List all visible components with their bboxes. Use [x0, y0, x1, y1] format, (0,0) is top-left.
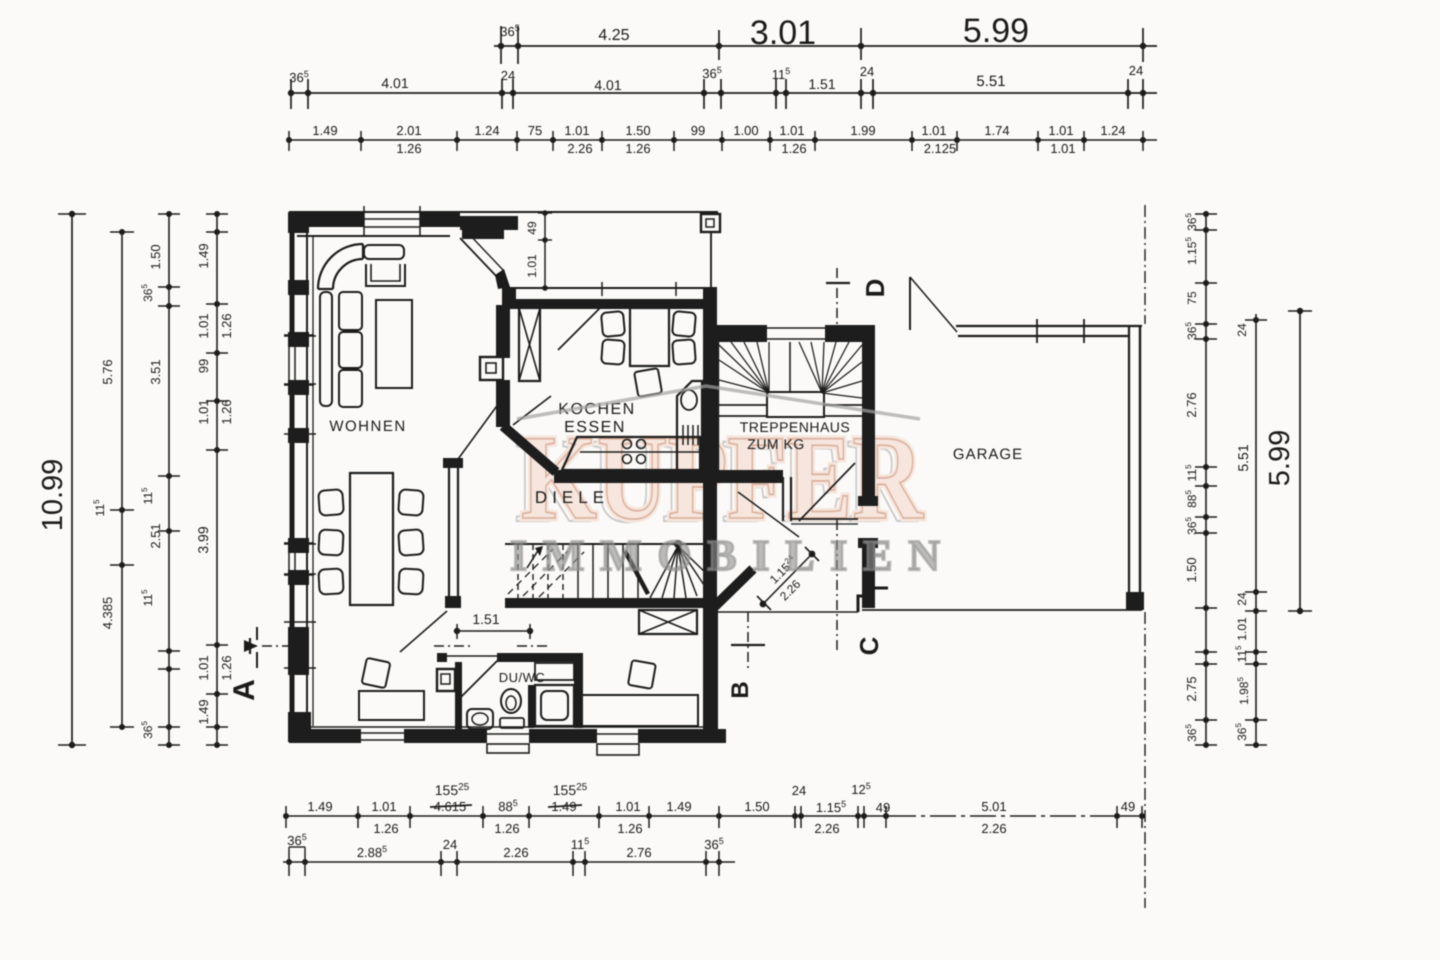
toilet [501, 689, 521, 713]
svg-text:2.76: 2.76 [1184, 392, 1199, 417]
svg-text:75: 75 [528, 123, 542, 138]
svg-text:115: 115 [571, 836, 590, 852]
sink [681, 390, 697, 410]
left wall outer line [290, 211, 295, 742]
svg-text:365: 365 [1234, 723, 1249, 741]
svg-text:115: 115 [140, 487, 155, 504]
kitchen-diele door leaf [513, 396, 551, 425]
property dash-dot line right [1144, 205, 1146, 324]
treppenhaus fan right [799, 342, 822, 393]
svg-text:TREPPENHAUS: TREPPENHAUS [740, 419, 851, 435]
svg-text:2.26: 2.26 [503, 845, 528, 860]
stair handrail bold [625, 551, 648, 594]
entry door swing treppenhaus [799, 463, 855, 521]
garage bottom opening line [862, 609, 1142, 611]
svg-text:4.25: 4.25 [598, 27, 629, 44]
svg-text:1.01: 1.01 [615, 799, 640, 814]
svg-text:1.01: 1.01 [196, 399, 211, 424]
svg-text:1.26: 1.26 [625, 141, 650, 156]
svg-text:115: 115 [772, 66, 791, 82]
svg-text:10.99: 10.99 [37, 459, 69, 532]
kitchen chairs [601, 311, 625, 337]
svg-text:49: 49 [1121, 799, 1135, 814]
tilted chair [628, 660, 656, 689]
top dimension row 3 [289, 139, 1157, 141]
svg-text:49: 49 [525, 221, 539, 235]
svg-text:24: 24 [860, 64, 874, 79]
vent shaft X box [639, 610, 697, 634]
stair bottom wall band [505, 598, 718, 608]
bottom wall band [289, 729, 361, 743]
stair dashed diagonals [508, 549, 553, 594]
left dimension column 4 [216, 214, 218, 745]
svg-text:2.26: 2.26 [981, 821, 1006, 836]
svg-text:DU/WC: DU/WC [499, 670, 546, 685]
right dimension column 1 [1205, 211, 1207, 746]
kitchen bottom wall band [554, 470, 783, 483]
svg-text:1.51: 1.51 [472, 611, 499, 627]
svg-text:C: C [854, 636, 884, 655]
right wall lower segment [703, 482, 717, 600]
top wall band living room [289, 211, 718, 213]
svg-text:24: 24 [501, 68, 515, 83]
svg-text:1.50: 1.50 [148, 244, 163, 269]
svg-text:A: A [228, 679, 261, 701]
svg-text:1.26: 1.26 [494, 821, 519, 836]
svg-text:365: 365 [1184, 213, 1199, 231]
svg-text:1.00: 1.00 [733, 123, 758, 138]
svg-text:5.51: 5.51 [976, 73, 1005, 90]
svg-text:ESSEN: ESSEN [564, 419, 626, 436]
bottom dimension row 2 [283, 861, 735, 863]
svg-text:1.49: 1.49 [196, 243, 211, 268]
garage right wall [1128, 326, 1130, 598]
kitchen right tall unit [677, 381, 702, 478]
svg-text:365: 365 [140, 284, 155, 302]
svg-text:365: 365 [287, 832, 306, 848]
svg-text:2.51: 2.51 [148, 523, 163, 548]
svg-text:24: 24 [1235, 323, 1249, 337]
svg-text:115: 115 [92, 499, 107, 516]
svg-text:1.155: 1.155 [1184, 237, 1199, 265]
dim 1.51 wc door [457, 630, 530, 632]
sofa seats [339, 292, 362, 330]
svg-text:365: 365 [702, 65, 721, 81]
treppenhaus fan left [719, 345, 769, 393]
svg-text:1.01: 1.01 [525, 254, 539, 278]
watermark roofline [517, 386, 920, 419]
svg-text:ZUM KG: ZUM KG [747, 436, 804, 452]
garage top wall [956, 325, 1142, 327]
svg-text:1.01: 1.01 [196, 655, 211, 680]
svg-text:2.75: 2.75 [1184, 676, 1199, 701]
garage bottom-left jamb [858, 588, 888, 612]
washbasin [467, 709, 493, 729]
wc door leaf [458, 659, 499, 700]
dining chairs [318, 489, 344, 516]
svg-text:1.24: 1.24 [1100, 123, 1125, 138]
svg-text:1.26: 1.26 [373, 821, 398, 836]
svg-text:2.01: 2.01 [396, 123, 421, 138]
svg-text:115: 115 [140, 589, 155, 606]
armchair top [366, 264, 405, 286]
sofa back cushion left [320, 292, 332, 406]
svg-text:1.26: 1.26 [617, 821, 642, 836]
kitchen top wall band [502, 287, 717, 289]
svg-text:1.50: 1.50 [744, 799, 769, 814]
svg-text:365: 365 [1184, 724, 1199, 742]
shower wall right [574, 662, 583, 728]
svg-text:99: 99 [691, 123, 705, 138]
hob circles [623, 440, 632, 449]
svg-text:1.26: 1.26 [396, 141, 421, 156]
left wall piers [288, 212, 309, 233]
wc-shower separator [528, 685, 534, 728]
treppenhaus side treads [719, 404, 767, 406]
bench/wardrobe bottom [579, 695, 698, 726]
svg-text:1.01: 1.01 [1048, 123, 1073, 138]
top wall diagonal wedge to kitchen [460, 216, 518, 230]
svg-text:1.985: 1.985 [1236, 677, 1251, 705]
interior stair treads solid [577, 544, 579, 598]
section line A left [262, 645, 302, 647]
svg-text:15525: 15525 [435, 782, 470, 798]
chimney box top right [701, 214, 720, 232]
svg-text:2.885: 2.885 [357, 844, 387, 860]
shower shelf [535, 663, 574, 680]
kitchen chair tilted below [634, 368, 662, 397]
left wall inner lines [306, 232, 308, 726]
svg-text:365: 365 [500, 23, 519, 39]
svg-text:2.26: 2.26 [814, 821, 839, 836]
svg-text:3.51: 3.51 [148, 359, 163, 384]
treppenhaus right wall band [862, 342, 875, 506]
wall opening tick marks [284, 334, 314, 336]
entry steps outside bottom wall [487, 744, 529, 753]
svg-text:49: 49 [876, 800, 890, 815]
svg-text:24: 24 [443, 837, 457, 852]
svg-text:1.24: 1.24 [474, 123, 499, 138]
right dimension column 2 [1255, 314, 1257, 745]
section marker C bottom [836, 520, 838, 650]
sofa corner arc [318, 244, 363, 289]
svg-text:1.51: 1.51 [808, 76, 835, 92]
svg-text:1.99: 1.99 [850, 123, 875, 138]
svg-text:D: D [860, 279, 890, 298]
svg-text:5.99: 5.99 [1264, 430, 1296, 486]
top dimension row 1 [494, 45, 1157, 47]
svg-text:1.50: 1.50 [625, 123, 650, 138]
svg-text:5.99: 5.99 [963, 12, 1029, 50]
top dimension row 2 [289, 92, 1157, 94]
svg-text:1.01: 1.01 [921, 123, 946, 138]
sofa top cushion [364, 245, 404, 259]
svg-text:125: 125 [851, 781, 870, 797]
svg-text:4.01: 4.01 [381, 75, 408, 91]
left dimension column 10.99 [71, 214, 73, 745]
svg-text:115: 115 [1234, 645, 1249, 662]
garage left wall [862, 336, 874, 500]
kitchen chamfer wall [503, 426, 556, 472]
svg-text:4.01: 4.01 [594, 77, 621, 93]
svg-text:5.01: 5.01 [981, 799, 1006, 814]
svg-text:DIELE: DIELE [535, 488, 609, 507]
dining table [350, 473, 393, 605]
entry hall jog wall [782, 477, 784, 521]
svg-text:1.49: 1.49 [312, 123, 337, 138]
stool tilted [362, 658, 391, 688]
svg-text:365: 365 [289, 69, 308, 85]
svg-text:1.49: 1.49 [307, 799, 332, 814]
sideboard bottom [359, 691, 424, 720]
section marker D top [836, 268, 838, 334]
svg-text:1.01: 1.01 [1050, 141, 1075, 156]
fridge vents [682, 425, 684, 445]
svg-text:24: 24 [792, 783, 806, 798]
svg-text:885: 885 [498, 798, 517, 814]
svg-text:365: 365 [1184, 517, 1199, 535]
treppenhaus left wall line [717, 342, 719, 470]
interior stair fan [650, 546, 678, 598]
entry ground line [718, 611, 858, 613]
coffee table [376, 300, 412, 388]
svg-text:2.26: 2.26 [567, 141, 592, 156]
shower tray [535, 685, 574, 726]
interior stair outline [505, 543, 712, 545]
kitchen table [630, 308, 669, 366]
svg-text:1.74: 1.74 [984, 123, 1009, 138]
svg-text:1.26: 1.26 [219, 399, 234, 424]
wc top wall [437, 653, 447, 662]
svg-text:3.01: 3.01 [750, 14, 816, 52]
garage entry door leaf [909, 277, 911, 330]
left wall crossbars [284, 335, 316, 337]
treppenhaus center line [789, 342, 791, 392]
svg-text:1.01: 1.01 [196, 313, 211, 338]
svg-text:5.51: 5.51 [1235, 444, 1251, 471]
svg-text:2.125: 2.125 [924, 141, 957, 156]
svg-text:1.01: 1.01 [779, 123, 804, 138]
kitchen counter bottom [562, 437, 700, 470]
svg-text:1.26: 1.26 [219, 655, 234, 680]
svg-text:B: B [727, 681, 754, 698]
wc left wall [455, 662, 462, 732]
svg-text:1.26: 1.26 [781, 141, 806, 156]
svg-text:IMMOBILIEN: IMMOBILIEN [510, 531, 940, 580]
section marker B [747, 612, 749, 668]
left dimension column 2 [121, 232, 123, 727]
svg-text:24: 24 [1129, 63, 1143, 78]
svg-text:99: 99 [196, 359, 211, 373]
svg-text:885: 885 [1184, 490, 1199, 508]
svg-text:1.49: 1.49 [666, 799, 691, 814]
svg-text:1.01: 1.01 [371, 799, 396, 814]
svg-text:1.01: 1.01 [564, 123, 589, 138]
svg-text:GARAGE: GARAGE [953, 446, 1023, 463]
stair up arrow [527, 549, 539, 568]
bottom dimension row 1 [286, 815, 890, 817]
svg-text:1.26: 1.26 [219, 313, 234, 338]
kitchen left wall [496, 305, 510, 358]
treppenhaus top wall [703, 325, 767, 342]
treppenhaus landing [767, 392, 824, 417]
svg-text:1.01: 1.01 [1235, 617, 1249, 641]
svg-text:5.76: 5.76 [100, 359, 115, 384]
diele top door swing [453, 403, 499, 466]
svg-text:365: 365 [140, 721, 155, 739]
vertical dim 1.01/49 at kitchen top [544, 213, 546, 288]
svg-text:4.385: 4.385 [100, 597, 115, 630]
left dimension column 3 [168, 214, 170, 745]
diagonal dim 1.15/2.26 entry [763, 554, 812, 604]
wc chimney [437, 669, 455, 691]
diagonal entry wall [712, 569, 753, 609]
svg-text:24: 24 [1235, 592, 1249, 606]
svg-text:365: 365 [704, 836, 723, 852]
kitchen tall cupboard with X [519, 308, 540, 381]
svg-text:1.155: 1.155 [816, 799, 846, 815]
interior stair treads dashed [517, 544, 519, 598]
diele left wall [448, 464, 450, 604]
kitchen door leaf top [558, 307, 601, 350]
svg-text:WOHNEN: WOHNEN [329, 418, 406, 435]
right dimension column 3 5.99 [1299, 311, 1301, 611]
svg-text:15525: 15525 [553, 782, 588, 798]
svg-text:1.50: 1.50 [1184, 557, 1199, 582]
svg-text:2.76: 2.76 [626, 845, 651, 860]
svg-text:1.49: 1.49 [196, 699, 211, 724]
living room to diele door swing [400, 611, 447, 652]
svg-text:75: 75 [1185, 291, 1199, 305]
svg-text:3.99: 3.99 [195, 526, 211, 553]
house right wall (kitchen) [703, 288, 717, 480]
